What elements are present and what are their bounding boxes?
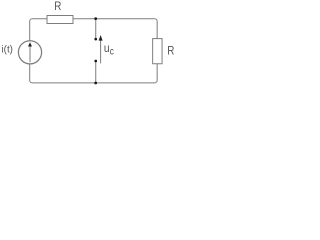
svg-text:i(t): i(t) [2,45,13,56]
svg-text:R: R [54,0,61,13]
svg-text:R: R [167,45,174,58]
svg-text:u: u [104,42,110,55]
svg-text:c: c [110,44,114,56]
